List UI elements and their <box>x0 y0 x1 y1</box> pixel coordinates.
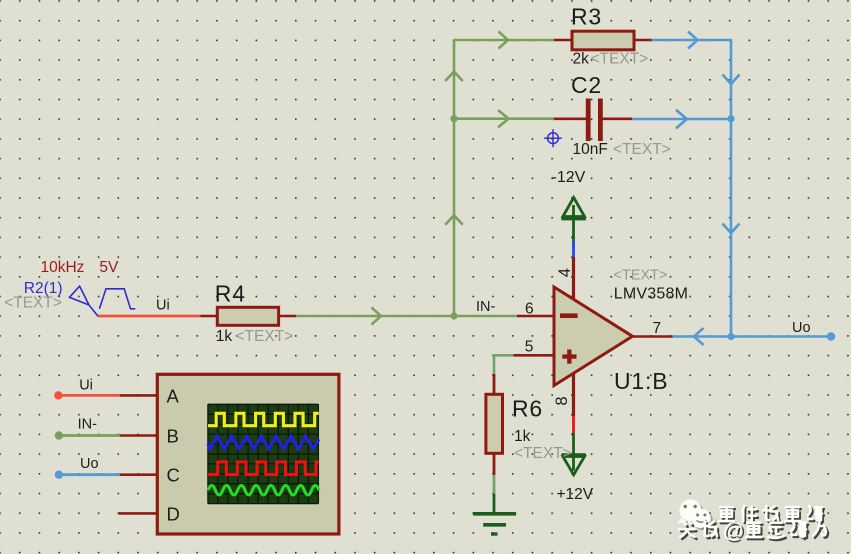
svg-text:2k: 2k <box>573 51 590 68</box>
scope input A wire <box>54 378 157 400</box>
svg-text:5V: 5V <box>99 259 119 276</box>
svg-text:R4: R4 <box>215 281 246 307</box>
svg-text:U1:B: U1:B <box>614 368 668 394</box>
arrow right on blue top wire <box>688 32 698 49</box>
svg-text:6: 6 <box>525 301 534 318</box>
scope input C wire <box>55 456 158 479</box>
svg-text:@: @ <box>723 520 744 543</box>
wire: blue from R3 right, corner, down to output <box>651 40 731 337</box>
svg-text:-12V: -12V <box>552 169 586 186</box>
op-amp U1:B <box>525 268 688 406</box>
watermark text line 2 <box>679 520 828 545</box>
svg-text:4: 4 <box>556 268 574 277</box>
watermark ghost logo <box>677 499 716 530</box>
wire: dark red pin 5 stub <box>514 354 555 357</box>
svg-text:Uo: Uo <box>792 320 811 336</box>
resistor R6 <box>486 394 572 462</box>
svg-text:1k: 1k <box>216 328 233 345</box>
net label IN- at pin 6 <box>476 299 496 315</box>
junction node blue at output <box>727 333 734 340</box>
net label Uo at output <box>792 320 811 336</box>
junction node blue at C2/feedback column <box>727 115 734 122</box>
svg-text:<TEXT>: <TEXT> <box>236 328 294 345</box>
svg-text:C: C <box>167 465 180 486</box>
wire: green horizontal R4 output to pin 6 <box>296 315 518 318</box>
scope input D stub <box>119 512 158 515</box>
wire: green horizontal to R3 <box>454 39 555 42</box>
svg-text:D: D <box>167 503 180 524</box>
arrow down on blue vertical (lower) <box>723 224 740 234</box>
svg-text:IN-: IN- <box>78 417 98 433</box>
junction node at C2 tap <box>450 115 457 122</box>
trace A yellow square wave <box>208 413 319 425</box>
svg-text:<TEXT>: <TEXT> <box>4 294 62 311</box>
wire: bright red segment on pin 8 net <box>572 416 575 434</box>
origin marker crosshair near C2 <box>544 129 562 147</box>
svg-text:<TEXT>: <TEXT> <box>591 51 649 68</box>
wire: dark red pin 4 <box>572 257 575 300</box>
arrow right on R4 output wire <box>372 308 382 325</box>
wire: green feedback vertical <box>453 40 456 316</box>
scope input B wire <box>55 417 158 440</box>
svg-text:+12V: +12V <box>557 486 594 503</box>
wire: dark green +12V stem <box>572 433 575 471</box>
wire: dark red R6 bottom stub <box>493 453 496 475</box>
net label Ui at R4 input <box>156 298 170 314</box>
arrow right on R3 feed <box>499 32 509 49</box>
power -12V arrow <box>552 169 586 219</box>
wire: dark green to ground <box>493 494 496 513</box>
resistor R3 <box>571 4 648 68</box>
wire: dark red R3 right stub <box>634 39 652 42</box>
wire: dark red C2 right stub <box>603 118 633 121</box>
svg-text:R3: R3 <box>571 4 602 30</box>
arrow up on feedback vertical (lower) <box>445 215 462 225</box>
trace D green sine wave <box>208 485 319 495</box>
svg-text:8: 8 <box>553 396 571 405</box>
svg-text:10kHz: 10kHz <box>41 259 85 276</box>
generator probe triangle <box>69 286 98 316</box>
terminal Uo right dot <box>827 332 835 340</box>
svg-text:Ui: Ui <box>79 378 93 394</box>
power +12V arrow <box>557 455 594 503</box>
wire: blue output horizontal to Uo <box>672 335 831 338</box>
wire: dark red op-amp output stub <box>630 335 673 338</box>
svg-text:<TEXT>: <TEXT> <box>613 141 671 158</box>
svg-text:C2: C2 <box>571 72 602 98</box>
oscilloscope box <box>157 374 339 534</box>
arrow right on C2 feed <box>498 110 509 127</box>
svg-text:7: 7 <box>653 320 662 337</box>
svg-text:Ui: Ui <box>156 298 170 314</box>
wire: dark red R4 left stub <box>200 315 217 318</box>
arrow up on feedback vertical (upper) <box>445 72 462 82</box>
capacitor C2 <box>571 72 671 158</box>
resistor R4 <box>215 281 293 346</box>
svg-text:<TEXT>: <TEXT> <box>613 268 667 284</box>
wire: dark red pin 6 stub <box>517 315 554 318</box>
wire: light green above ground <box>493 475 496 494</box>
wire: dark red R3 left stub <box>554 39 573 42</box>
wire: dark green -12V stem <box>572 205 575 242</box>
svg-text:IN-: IN- <box>476 299 496 315</box>
trace C red square wave <box>208 462 319 475</box>
arrow left on blue output wire <box>694 328 704 345</box>
wire: blue segment below -12V stem <box>572 241 575 258</box>
wire: source red segment <box>98 315 200 318</box>
trace B blue triangle wave <box>208 436 319 448</box>
wire: dark red R4 right stub <box>278 315 296 318</box>
svg-text:R6: R6 <box>512 395 543 421</box>
watermark text line 1 <box>719 506 824 523</box>
wire: dark red C2 left stub <box>554 118 587 121</box>
wire: blue from C2 right <box>632 118 732 121</box>
svg-text:<TEXT>: <TEXT> <box>514 445 572 462</box>
wire: dark red R6 top stub <box>493 374 496 395</box>
arrow right on blue C2 wire <box>676 110 687 129</box>
arrow down on blue vertical (upper) <box>723 75 740 85</box>
svg-text:5: 5 <box>525 339 534 356</box>
wire: green horizontal to C2 <box>454 117 555 120</box>
svg-text:A: A <box>167 385 180 406</box>
generator pulse waveform icon <box>99 289 135 309</box>
oscilloscope screen <box>208 404 319 503</box>
svg-text:1k: 1k <box>514 428 531 445</box>
wire: light green pin 5 lead <box>494 355 514 374</box>
svg-text:LMV358M: LMV358M <box>614 286 688 303</box>
svg-text:10nF: 10nF <box>573 141 608 158</box>
generator R2(1) labels <box>4 259 119 311</box>
wire: dark red pin 8 <box>572 373 575 417</box>
ground <box>473 514 516 534</box>
junction node at pin6 tap <box>450 312 457 319</box>
svg-text:Uo: Uo <box>80 456 99 472</box>
svg-text:B: B <box>167 425 179 446</box>
